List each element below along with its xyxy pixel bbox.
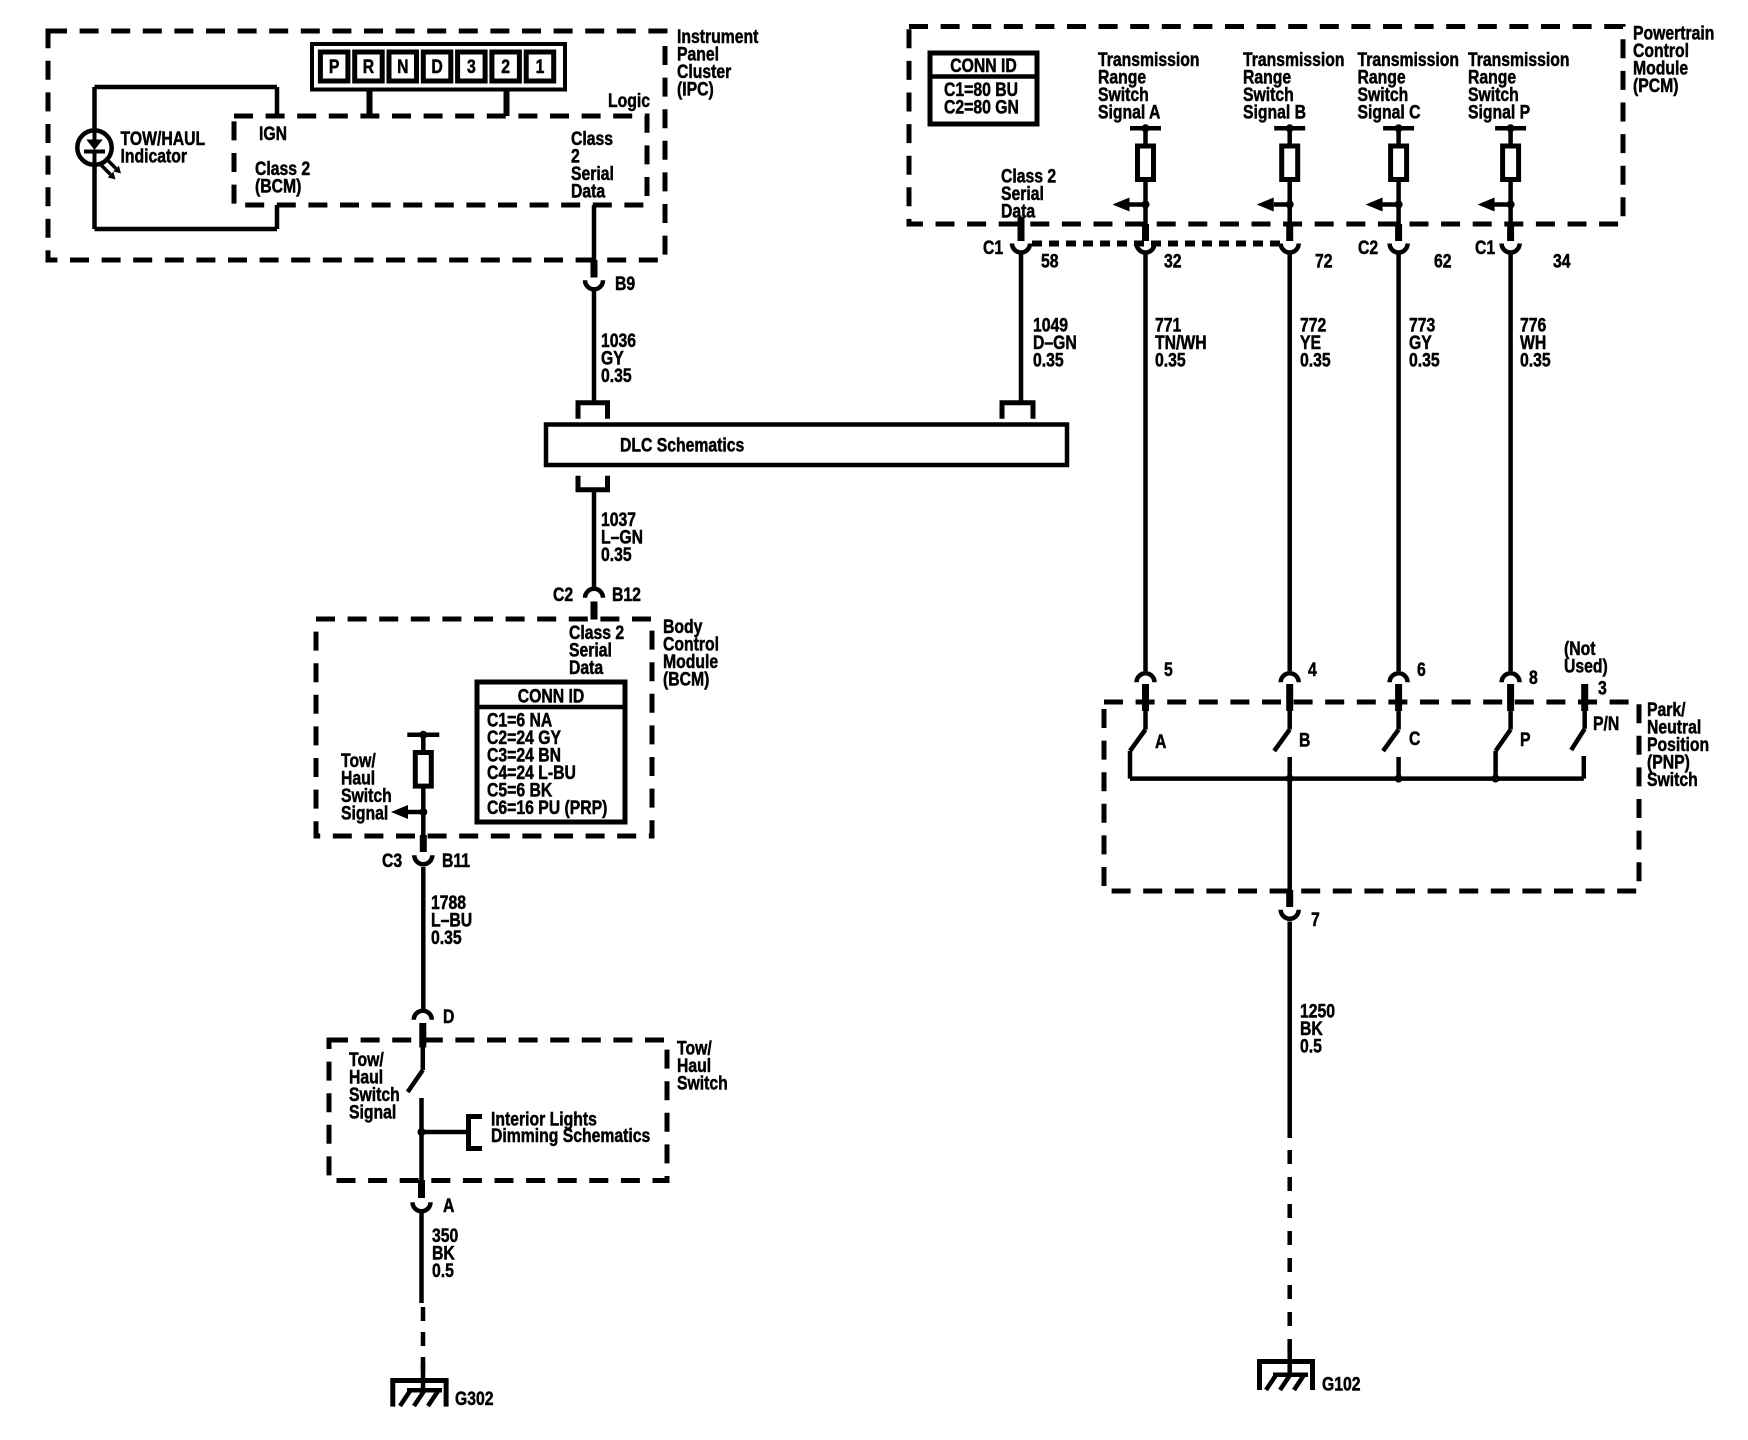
label: P (PNP) xyxy=(1520,729,1531,751)
switch contact B (open) xyxy=(1274,711,1290,891)
svg-text:C6=16 PU (PRP): C6=16 PU (PRP) xyxy=(487,797,607,819)
svg-text:C2=80 GN: C2=80 GN xyxy=(944,96,1019,118)
DLC Schematics reference box xyxy=(546,425,1067,466)
svg-text:Signal: Signal xyxy=(341,802,388,824)
svg-text:3: 3 xyxy=(467,55,476,77)
label: C1 xyxy=(983,237,1003,259)
svg-text:0.35: 0.35 xyxy=(601,365,632,387)
svg-text:N: N xyxy=(397,55,408,77)
svg-text:Data: Data xyxy=(569,657,603,679)
resistor: PCM pull-up for signal C xyxy=(1383,124,1414,224)
label: G102 xyxy=(1322,1373,1361,1395)
label: 32 xyxy=(1164,250,1182,272)
connector pin 7 (PNP ground) xyxy=(1281,890,1299,919)
label: Instrument Panel Cluster (IPC) xyxy=(677,26,759,100)
svg-text:Indicator: Indicator xyxy=(121,145,188,167)
label: 4 xyxy=(1308,659,1317,681)
svg-text:0.5: 0.5 xyxy=(432,1260,454,1282)
connector C3 / B11 (BCM) xyxy=(414,835,432,864)
svg-text:Data: Data xyxy=(571,180,605,202)
label: C1 (pin 34) xyxy=(1475,237,1495,259)
svg-text:G302: G302 xyxy=(455,1388,494,1410)
label: Tow/Haul Switch (module) xyxy=(677,1037,728,1094)
CONN ID table (BCM) xyxy=(477,682,625,822)
bracket: interior lights dimming schematics reference xyxy=(469,1117,483,1149)
label: 3 xyxy=(1598,677,1607,699)
label: C2 xyxy=(553,584,573,606)
svg-text:0.35: 0.35 xyxy=(1520,349,1551,371)
svg-text:D: D xyxy=(443,1006,454,1028)
label: circuit 771 TN/WH 0.35 xyxy=(1155,314,1207,371)
wire: unspecified length to G102 (dashed) xyxy=(1287,1150,1292,1353)
label: C (PNP) xyxy=(1409,728,1421,750)
terminal staple into DLC (right top, from PCM 1049) xyxy=(1002,403,1033,419)
svg-text:62: 62 xyxy=(1434,250,1452,272)
node: sense arrow for signal B xyxy=(1257,198,1294,212)
label: D xyxy=(443,1006,454,1028)
label: B11 xyxy=(442,850,470,872)
svg-text:DLC Schematics: DLC Schematics xyxy=(620,434,744,456)
label: Transmission Range Switch Signal P xyxy=(1468,49,1570,123)
wire 1036 GY 0.35 : IPC B9 to DLC splice xyxy=(592,292,597,402)
node: sense arrow for signal P xyxy=(1478,198,1515,212)
wire: unspecified length to G302 (dashed) xyxy=(421,1307,426,1377)
svg-text:0.35: 0.35 xyxy=(1300,349,1331,371)
label: circuit 773 GY 0.35 xyxy=(1409,314,1440,371)
svg-text:32: 32 xyxy=(1164,250,1182,272)
svg-text:B9: B9 xyxy=(615,273,635,295)
CONN ID table (PCM) xyxy=(930,53,1037,124)
svg-text:0.35: 0.35 xyxy=(1155,349,1186,371)
svg-text:Dimming Schematics: Dimming Schematics xyxy=(491,1125,650,1147)
svg-text:3: 3 xyxy=(1598,677,1607,699)
label: Transmission Range Switch Signal A xyxy=(1098,49,1200,123)
wire 1037 L-GN 0.35 : DLC to BCM C2/B12 xyxy=(592,490,597,587)
connector B9 (IPC harness connector) xyxy=(585,260,603,289)
label: 72 xyxy=(1315,250,1333,272)
label: TOW/HAUL Indicator xyxy=(121,128,206,167)
module box: Park/Neutral Position (PNP) Switch xyxy=(1104,702,1639,891)
svg-text:0.5: 0.5 xyxy=(1300,1035,1322,1057)
label: Tow/Haul Switch Signal (switch) xyxy=(349,1049,400,1123)
connector C1 pin 58 (PCM class 2 serial data) xyxy=(1012,217,1030,253)
ground G302 xyxy=(390,1362,448,1407)
svg-text:D: D xyxy=(431,55,442,77)
svg-text:8: 8 xyxy=(1529,667,1538,689)
svg-text:6: 6 xyxy=(1417,659,1426,681)
svg-text:C1: C1 xyxy=(983,237,1003,259)
svg-text:R: R xyxy=(363,55,375,77)
label: IGN input xyxy=(259,123,287,145)
label: Powertrain Control Module (PCM) xyxy=(1633,22,1714,96)
svg-text:Switch: Switch xyxy=(677,1072,728,1094)
logic block (dashed) inside IPC xyxy=(234,116,647,205)
label: 62 xyxy=(1434,250,1452,272)
svg-text:Logic: Logic xyxy=(608,90,650,112)
connector C1 pin 34 (signal P) xyxy=(1502,224,1520,253)
label: circuit 776 WH 0.35 xyxy=(1520,314,1551,371)
svg-text:IGN: IGN xyxy=(259,123,287,145)
wire: PRND321 display to Logic box (left) xyxy=(367,90,373,116)
connector pin 6 (PNP switch) xyxy=(1390,673,1408,711)
svg-text:P: P xyxy=(1520,729,1531,751)
svg-text:P/N: P/N xyxy=(1593,713,1619,735)
node: bus junction at C xyxy=(1395,775,1403,783)
node: junction to interior lights dimming xyxy=(418,1128,467,1136)
label: Tow/Haul Switch Signal (BCM) xyxy=(341,750,392,824)
svg-text:34: 34 xyxy=(1553,250,1571,272)
connector pin 72 (signal B) xyxy=(1281,224,1299,253)
label: P/N xyxy=(1593,713,1619,735)
svg-text:0.35: 0.35 xyxy=(1033,349,1064,371)
svg-text:(IPC): (IPC) xyxy=(677,78,714,100)
label: 34 xyxy=(1553,250,1571,272)
label: Class 2 (BCM) input xyxy=(255,158,310,197)
svg-text:Signal P: Signal P xyxy=(1468,101,1530,123)
wire 776 WH 0.35 : PCM to PNP switch xyxy=(1508,251,1513,671)
label: Class 2 Serial Data (PCM) xyxy=(1001,165,1056,222)
switch S1: tow/haul momentary contact xyxy=(408,1046,423,1181)
connector A (Tow/Haul switch) xyxy=(413,1180,431,1211)
svg-text:Signal: Signal xyxy=(349,1101,396,1123)
label: 7 xyxy=(1311,909,1320,931)
label: C3 xyxy=(382,850,402,872)
resistor: PCM pull-up for signal A xyxy=(1130,124,1161,224)
wire 1788 L-BU 0.35 : BCM B11 to Tow/Haul switch D xyxy=(421,867,426,1011)
svg-text:(BCM): (BCM) xyxy=(255,175,301,197)
svg-text:0.35: 0.35 xyxy=(1409,349,1440,371)
svg-text:1: 1 xyxy=(536,55,545,77)
switch contact C (open) xyxy=(1383,711,1399,779)
connector pin 8 (PNP switch) xyxy=(1502,673,1520,711)
switch contact A (closed) xyxy=(1130,711,1146,779)
module box: Instrument Panel Cluster (IPC) xyxy=(48,31,665,260)
svg-text:A: A xyxy=(1155,731,1167,753)
terminal staple out of DLC (bottom) xyxy=(578,476,608,490)
svg-text:P: P xyxy=(329,55,340,77)
LED D1: TOW/HAUL indicator lamp xyxy=(77,130,121,179)
label: Body Control Module (BCM) xyxy=(663,616,719,690)
ground G102 xyxy=(1257,1347,1315,1390)
connector C2 pin 62 (signal C) xyxy=(1390,224,1408,253)
label: 8 xyxy=(1529,667,1538,689)
label: circuit 1788 L-BU 0.35 xyxy=(431,892,472,949)
node: sense arrow for signal A xyxy=(1113,198,1150,212)
module box: Powertrain Control Module (PCM) xyxy=(909,27,1623,225)
connector pin 4 (PNP switch) xyxy=(1281,673,1299,711)
wire 773 GY 0.35 : PCM to PNP switch xyxy=(1396,251,1401,671)
svg-text:72: 72 xyxy=(1315,250,1333,272)
label: Logic xyxy=(608,90,650,112)
wire: class 2 serial data in-harness bus (dashed) xyxy=(1032,241,1286,247)
connector pin 5 (PNP switch) xyxy=(1137,673,1155,711)
svg-text:(BCM): (BCM) xyxy=(663,668,709,690)
label: circuit 772 YE 0.35 xyxy=(1300,314,1331,371)
module box: Tow/Haul Switch xyxy=(329,1040,667,1181)
label: Transmission Range Switch Signal C xyxy=(1358,49,1460,123)
label: circuit 350 BK 0.5 xyxy=(432,1225,458,1282)
svg-text:C3: C3 xyxy=(382,850,402,872)
label: (Not Used) xyxy=(1564,638,1608,677)
svg-text:Switch: Switch xyxy=(1647,769,1698,791)
svg-text:C1: C1 xyxy=(1475,237,1495,259)
label: Park/Neutral Position (PNP) Switch xyxy=(1647,699,1709,791)
resistor: PCM pull-up for signal P xyxy=(1495,124,1526,224)
label: A xyxy=(443,1195,455,1217)
label: Transmission Range Switch Signal B xyxy=(1243,49,1345,123)
label: C2 xyxy=(1358,237,1378,259)
PRNDL gear indicator display P R N D 3 2 1 xyxy=(312,44,565,90)
label: circuit 1036 GY 0.35 xyxy=(601,330,636,387)
wire 350 BK 0.5 : switch to ground xyxy=(419,1212,424,1303)
svg-text:5: 5 xyxy=(1164,659,1173,681)
svg-text:C2: C2 xyxy=(553,584,573,606)
wire 1250 BK 0.5 : PNP to ground xyxy=(1287,922,1292,1139)
svg-text:C: C xyxy=(1409,728,1421,750)
resistor R (BCM pull-up) with supply T-bar xyxy=(407,731,439,836)
svg-text:B: B xyxy=(1299,729,1310,751)
wire: PRND321 display to Logic box (right) xyxy=(504,90,510,116)
wire 1049 D-GN 0.35 : PCM 58 to DLC xyxy=(1019,251,1024,401)
module box: Body Control Module (BCM) xyxy=(316,619,652,836)
label: B9 xyxy=(615,273,635,295)
label: Interior Lights Dimming Schematics xyxy=(491,1108,650,1146)
svg-text:4: 4 xyxy=(1308,659,1317,681)
svg-text:B12: B12 xyxy=(612,584,641,606)
wire: PNP common bus xyxy=(1130,776,1584,781)
label: circuit 1037 L-GN 0.35 xyxy=(601,509,643,566)
connector pin 32 (signal A) xyxy=(1137,224,1155,253)
svg-text:Used): Used) xyxy=(1564,655,1608,677)
wire 772 YE 0.35 : PCM to PNP switch xyxy=(1287,251,1292,671)
label: circuit 1049 D-GN 0.35 xyxy=(1033,314,1077,371)
label: Class 2 Serial Data (IPC) xyxy=(571,128,614,202)
connector pin 3 (not used) xyxy=(1581,684,1588,711)
label: B12 xyxy=(612,584,641,606)
svg-text:G102: G102 xyxy=(1322,1373,1361,1395)
label: A (PNP) xyxy=(1155,731,1167,753)
svg-text:2: 2 xyxy=(501,55,510,77)
node: bus junction at B xyxy=(1286,775,1294,783)
label: G302 xyxy=(455,1388,494,1410)
switch contact P (closed) xyxy=(1496,711,1511,779)
svg-text:Signal C: Signal C xyxy=(1358,101,1421,123)
wire 771 TN/WH 0.35 : PCM to PNP switch xyxy=(1143,251,1148,671)
node: sense arrow for signal C xyxy=(1366,198,1403,212)
label: circuit 1250 BK 0.5 xyxy=(1300,1000,1335,1057)
svg-text:Signal A: Signal A xyxy=(1098,101,1161,123)
svg-text:58: 58 xyxy=(1041,250,1059,272)
node: bus junction at P xyxy=(1492,775,1500,783)
svg-text:(PCM): (PCM) xyxy=(1633,75,1678,97)
svg-text:0.35: 0.35 xyxy=(431,927,462,949)
svg-text:0.35: 0.35 xyxy=(601,544,632,566)
label: 58 xyxy=(1041,250,1059,272)
svg-text:CONN ID: CONN ID xyxy=(950,55,1016,77)
svg-text:CONN ID: CONN ID xyxy=(518,685,584,707)
svg-text:Signal B: Signal B xyxy=(1243,101,1306,123)
wire: LED top to IGN input of logic xyxy=(95,87,278,131)
connector D (Tow/Haul switch) xyxy=(414,1011,432,1048)
terminal staple into DLC (left top) xyxy=(578,403,608,419)
switch contact P/N (open) xyxy=(1571,711,1585,779)
label: Class 2 Serial Data (BCM) xyxy=(569,622,624,679)
label: B (PNP) xyxy=(1299,729,1310,751)
wire: LED bottom return to logic xyxy=(95,164,278,229)
svg-text:7: 7 xyxy=(1311,909,1320,931)
resistor: PCM pull-up for signal B xyxy=(1274,124,1305,224)
node: Tow/Haul switch signal sense arrow xyxy=(391,805,427,819)
label: 6 xyxy=(1417,659,1426,681)
connector C2 / B12 (BCM) xyxy=(585,589,603,620)
svg-text:B11: B11 xyxy=(442,850,470,872)
wire: logic output to connector B9 xyxy=(592,205,597,261)
svg-text:C2: C2 xyxy=(1358,237,1378,259)
svg-text:A: A xyxy=(443,1195,455,1217)
label: 5 xyxy=(1164,659,1173,681)
